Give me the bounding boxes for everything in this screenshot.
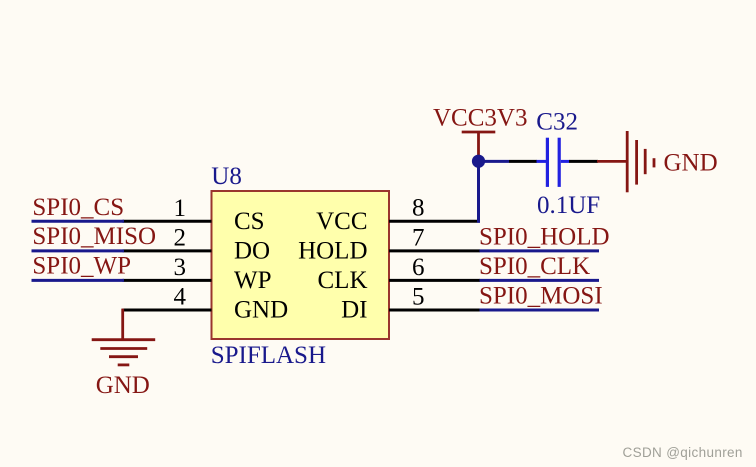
wire SPI0_CLK [480,279,600,282]
svg-text:CSDN @qichunren: CSDN @qichunren [623,445,743,460]
svg-text:VCC3V3: VCC3V3 [433,104,527,131]
capacitor C32 pin 2 (black) [569,160,598,163]
pin 4 line (GND) [123,309,212,312]
svg-text:SPI0_CLK: SPI0_CLK [479,253,590,280]
svg-text:8: 8 [412,195,425,222]
IC U8 chip body SPIFLASH [212,191,390,339]
svg-text:GND: GND [234,297,288,324]
svg-text:5: 5 [412,284,425,311]
pin 3 line (WP) [123,279,212,282]
svg-text:SPI0_CS: SPI0_CS [32,194,124,221]
svg-text:6: 6 [412,254,425,281]
ground GND left bar 2 [100,347,147,350]
wire SPI0_MOSI [480,309,600,312]
pin 2 line (DO) [123,249,212,252]
ground GND right horizontal lead [597,160,627,163]
pin 5 line (DI) [389,309,480,312]
svg-text:SPIFLASH: SPIFLASH [211,342,326,369]
pin 1 line (CS) [123,220,212,223]
svg-text:DI: DI [341,297,367,324]
ground GND left stem [121,309,124,340]
ground GND right bar 2 [635,140,638,185]
svg-text:HOLD: HOLD [298,238,367,265]
wire VCC junction to capacitor [479,160,510,163]
svg-text:SPI0_MOSI: SPI0_MOSI [479,283,603,310]
pin 6 line (CLK) [389,279,480,282]
svg-text:GND: GND [664,150,718,177]
ground GND right bar 1 [626,131,629,192]
svg-text:SPI0_MISO: SPI0_MISO [32,223,156,250]
ground GND right bar 4 [653,158,656,167]
svg-text:4: 4 [174,284,187,311]
power port VCC3V3 bar [462,131,496,134]
svg-text:3: 3 [174,254,187,281]
power port VCC3V3 stem [477,132,480,158]
svg-text:CLK: CLK [318,267,368,294]
svg-text:VCC: VCC [316,208,367,235]
svg-text:2: 2 [174,224,187,251]
svg-text:1: 1 [174,195,187,222]
wire SPI0_HOLD [480,249,600,252]
svg-text:U8: U8 [211,163,242,190]
ground GND left bar 3 [109,355,138,358]
capacitor C32 plate 1 [546,138,549,187]
wire SPI0_WP [32,279,125,282]
capacitor C32 right lead [561,160,570,163]
svg-text:WP: WP [234,267,272,294]
svg-text:0.1UF: 0.1UF [537,192,600,219]
ground GND left bar 1 [92,338,156,341]
wire VCC vertical to pin 8 [477,158,480,223]
ground GND left bar 4 [118,363,130,366]
capacitor C32 pin 1 (black) [509,160,537,163]
pin 8 line (VCC) [389,220,477,223]
svg-text:SPI0_WP: SPI0_WP [32,252,131,279]
svg-text:CS: CS [234,208,265,235]
ground GND right bar 3 [644,149,647,174]
wire SPI0_MISO [32,249,125,252]
junction dot [472,155,485,168]
capacitor C32 plate 2 [558,138,561,187]
svg-text:DO: DO [234,238,270,265]
svg-text:GND: GND [96,372,150,399]
svg-text:SPI0_HOLD: SPI0_HOLD [479,224,610,251]
svg-text:C32: C32 [536,108,578,135]
svg-text:7: 7 [412,224,425,251]
wire SPI0_CS [32,220,125,223]
capacitor C32 left lead [537,160,547,163]
pin 7 line (HOLD) [389,249,480,252]
